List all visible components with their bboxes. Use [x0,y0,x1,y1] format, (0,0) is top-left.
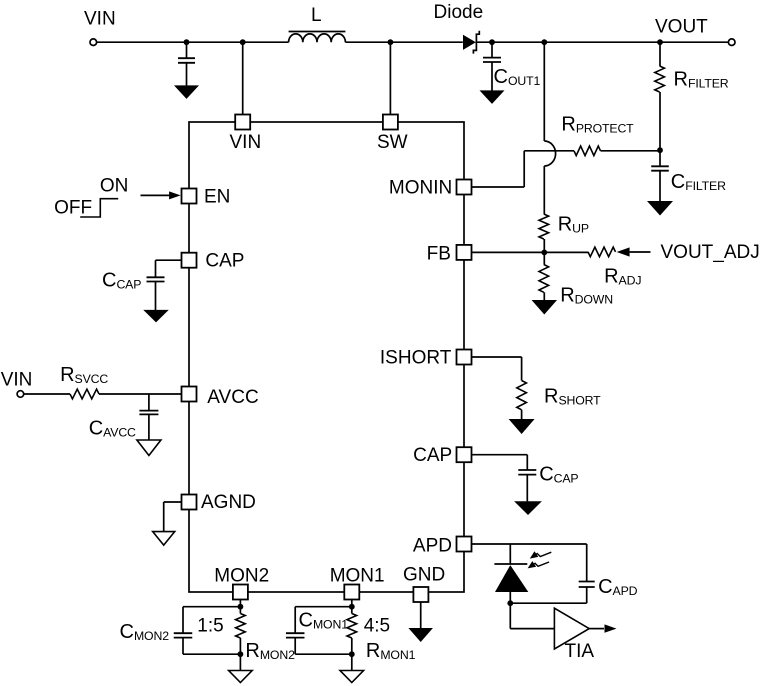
svg-text:VIN: VIN [84,9,116,30]
svg-text:SW: SW [377,132,408,153]
svg-text:1:5: 1:5 [197,615,223,636]
svg-text:4:5: 4:5 [364,615,390,636]
svg-text:EN: EN [204,187,230,208]
svg-text:CAP: CAP [205,251,244,272]
svg-text:MONIN: MONIN [389,177,452,198]
svg-text:L: L [311,5,322,26]
svg-text:Diode: Diode [434,2,484,23]
svg-text:MON2: MON2 [214,566,269,587]
svg-text:VIN: VIN [230,132,262,153]
svg-text:VIN: VIN [1,370,33,391]
svg-text:AVCC: AVCC [207,387,258,408]
svg-text:GND: GND [403,565,445,586]
svg-text:VOUT: VOUT [655,17,708,38]
svg-text:CAP: CAP [413,445,452,466]
svg-text:AGND: AGND [201,492,256,513]
svg-text:TIA: TIA [565,641,595,662]
svg-text:OFF: OFF [54,198,92,219]
svg-text:ISHORT: ISHORT [380,348,452,369]
svg-text:FB: FB [427,244,451,265]
svg-text:MON1: MON1 [330,566,385,587]
svg-text:ON: ON [100,175,128,196]
svg-text:VOUT_ADJ: VOUT_ADJ [661,242,760,263]
svg-text:APD: APD [413,536,452,557]
